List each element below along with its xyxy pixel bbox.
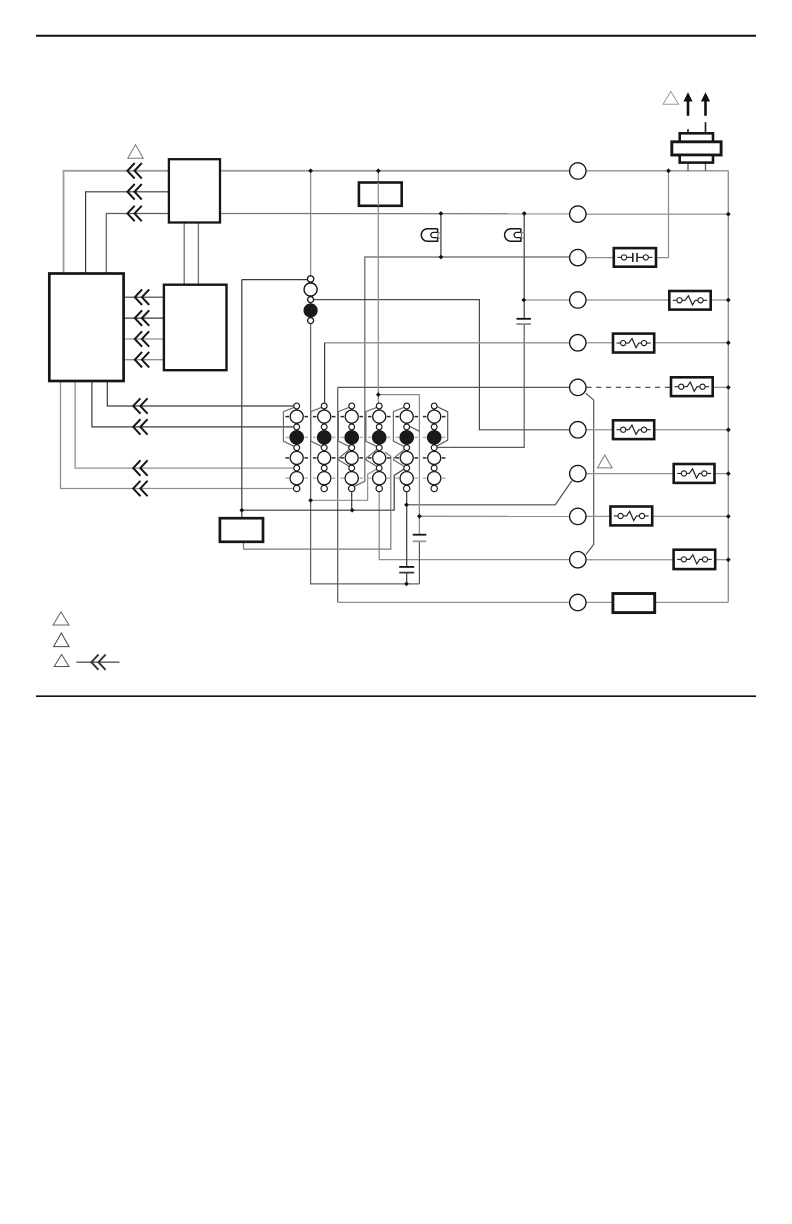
wire: col5 bottom drop through capacitor C-C xyxy=(406,492,408,567)
wire: gray net y500 chain to col4 lower contact xyxy=(311,469,377,500)
connector chevron K9 xyxy=(133,420,140,434)
wire: net row1 left pin 3 xyxy=(106,214,169,275)
switch column SW2 wiper bracket xyxy=(311,407,322,446)
connector circle C6 xyxy=(570,379,586,395)
wire: row6 net to switch bank and row11 xyxy=(338,386,570,388)
connector circle C3 xyxy=(570,249,586,265)
wire: row11 to C11 xyxy=(338,601,569,603)
switch column SW5 contacts xyxy=(404,403,410,409)
switch column SW5 wiper bracket xyxy=(393,407,404,446)
wire: row3 net xyxy=(353,257,569,487)
switch column SW2 contact dashes xyxy=(313,416,317,418)
wire: row10 net from switch col4 bottom xyxy=(379,492,569,560)
switch column SW5 lower wiper xyxy=(394,450,404,467)
wire: long vertical to label box L1 xyxy=(241,280,243,519)
triangle note marker mid right xyxy=(598,455,613,468)
wire: row11 C11 to relay box R1 xyxy=(586,601,613,603)
wire: row8 C8 to fuse F6 xyxy=(586,473,674,475)
wire: branch row1 down to junction chain J1 xyxy=(310,171,312,277)
connector circle C11 xyxy=(570,594,586,610)
lamp E2 xyxy=(505,229,521,242)
label box L1 xyxy=(220,518,263,542)
wire: row2 U1 to C2 xyxy=(220,213,570,215)
legend triangle 2 xyxy=(54,633,69,647)
connector circle C1 xyxy=(570,163,586,179)
wire: row2 C2 to bus xyxy=(586,213,728,215)
connector circle C5 xyxy=(570,335,586,351)
triangle note marker top right xyxy=(663,91,679,104)
switch column SW6 contact dashes xyxy=(423,416,427,418)
wire: chain J1 vertical through switch bank xyxy=(311,283,420,584)
wire: row4 C4 to fuse F2 xyxy=(586,299,669,301)
wire: U2-U3 row d xyxy=(124,359,164,361)
connector chevron K1 xyxy=(127,164,134,178)
wire: net row1 C1 to horn/battery legs xyxy=(586,170,728,172)
wire: fuse F1 riser to row1 xyxy=(656,171,669,258)
switch column SW4 contact dashes xyxy=(368,416,372,418)
wire: row4 net from chain J1 to C7 xyxy=(314,300,570,430)
wire: row8 diagonal net C8 to switch col5 drop xyxy=(407,481,572,505)
wire: row7 C7 to fuse F5 xyxy=(586,429,613,431)
connector chevron K3 xyxy=(127,207,134,221)
control unit U1 (top box) xyxy=(169,159,220,222)
arrow up 1 xyxy=(687,100,690,116)
wire: U2 bottom pin to switch column 1 (row S3) xyxy=(75,380,294,468)
connector circle C10 xyxy=(570,552,586,568)
wire: row4b capacitor branch to C4 xyxy=(524,299,570,301)
switch column SW4 lower wiper xyxy=(366,450,376,467)
wire: row9 C9 to fuse F7 xyxy=(586,515,610,517)
wire: net row1 main bus U1 to C1 xyxy=(220,170,570,172)
connector circle C9 xyxy=(570,508,586,524)
connector chevron K8 xyxy=(133,399,140,413)
horn component M1 legs xyxy=(687,162,689,171)
wire: row5 C5 to fuse F3 xyxy=(586,342,613,344)
switch column SW3 lower wiper xyxy=(339,450,349,467)
junction dots xyxy=(308,168,313,173)
connector chevron K11 xyxy=(133,482,140,496)
connector circle C2 xyxy=(570,206,586,222)
switch column SW2 contacts xyxy=(321,403,327,409)
wire: U2 bottom pin to switch column 1 top (row S1) xyxy=(107,380,293,406)
wire: row3 C3 to fuse F1 xyxy=(586,257,614,259)
legend chevron symbol xyxy=(76,661,119,663)
connector circle C4 xyxy=(570,292,586,308)
fuse F5 xyxy=(613,420,654,439)
junction chain J1 contacts xyxy=(307,276,313,282)
switch column SW1 wiper bracket xyxy=(283,407,294,446)
wire: U2-U3 row b xyxy=(124,317,164,319)
wire: net y394 branch to capacitor C-B drop xyxy=(378,395,419,535)
switch column SW6 wiper bracket xyxy=(437,407,448,446)
wire: fuse F5 to bus xyxy=(654,429,728,431)
connector chevron K4 xyxy=(135,290,142,304)
connector chevron K6 xyxy=(135,332,142,346)
wire: U2-U3 row a xyxy=(124,296,164,298)
lamp E1 xyxy=(421,229,437,242)
switch column SW5 contact dashes xyxy=(395,416,399,418)
capacitor C-B xyxy=(413,534,427,536)
page bottom rule xyxy=(36,695,756,697)
wire: U2 bottom pin to switch column 1 (row S2) xyxy=(92,380,294,427)
wire: fuse F3 to bus xyxy=(654,342,728,344)
wire: row5 net to switch col2 xyxy=(325,342,570,344)
horn component M1 stub right xyxy=(705,122,707,134)
page top rule xyxy=(36,35,756,37)
control unit U3 (mid box) xyxy=(164,285,227,371)
legend triangle 1 xyxy=(53,612,69,625)
fuse F4 xyxy=(671,377,713,396)
control unit U2 (large left box) xyxy=(49,274,123,382)
wire: fuse F8 to bus xyxy=(715,559,728,561)
capacitor C-C xyxy=(399,566,414,568)
wire: net row1 left pin 2 xyxy=(86,192,169,275)
switch column SW1 contacts xyxy=(294,403,300,409)
fuse F2 xyxy=(669,291,710,310)
fuse F8 xyxy=(674,550,716,569)
fuse F3 xyxy=(613,334,654,353)
wire: bus bottom to relay box R1 xyxy=(655,601,729,603)
wire: row1 branch visible through box E xyxy=(377,183,379,206)
relay box R1 (empty) xyxy=(613,594,655,613)
wire: selector arm C6 to C10 xyxy=(586,393,594,554)
wire: col5 wiper diagonal to drop xyxy=(410,426,420,431)
switch column SW3 wiper bracket xyxy=(338,407,349,446)
wire: junction chain J1 feed from U3 area xyxy=(242,279,308,281)
triangle note marker 1 xyxy=(128,145,144,159)
fuse F7 xyxy=(610,507,652,526)
wire: row6 dashed link C6 to fuse F4 xyxy=(586,386,671,388)
switch column SW3 contact dashes xyxy=(340,416,344,418)
connector circle C8 xyxy=(570,465,586,481)
wire: net row1 left, control unit U2 top pin 1 to U1 xyxy=(64,171,169,275)
wire: row10 C10 to fuse F8 xyxy=(586,559,674,561)
switch column SW3 contacts xyxy=(349,403,355,409)
box E (small top-middle box) xyxy=(359,183,402,206)
wire: U2-U3 row c xyxy=(124,338,164,340)
connector chevron K2 xyxy=(127,185,134,199)
arrow up 2 xyxy=(704,100,707,116)
switch column SW4 contacts xyxy=(376,403,382,409)
connector chevron K5 xyxy=(135,311,142,325)
wire: lamp E2 drop to capacitor C-A and switch col6 xyxy=(523,214,525,319)
wire: right vertical supply bus xyxy=(727,171,729,603)
wire: U1 to U3 vertical pair xyxy=(183,223,185,285)
wire: row9 net to capacitor drop xyxy=(419,515,569,517)
horn component M1 body xyxy=(680,133,713,142)
wire: lamp E1 drop xyxy=(440,214,442,258)
wire: fuse F2 to bus xyxy=(711,299,729,301)
wire: black net y510 to col5 contact xyxy=(242,469,404,510)
connector circle C7 xyxy=(570,422,586,438)
legend triangle 3 xyxy=(54,655,69,667)
wire: fuse F6 to bus xyxy=(715,473,729,475)
fuse F6 xyxy=(674,464,715,483)
connector chevron K10 xyxy=(133,461,140,475)
fuse F1 (capacitor type) xyxy=(614,248,656,267)
wire: branch row1 through box E to switch col4 top xyxy=(377,171,379,403)
connector chevron K7 xyxy=(135,353,142,367)
wire: U2 bottom pin to switch column 1 (row S4) xyxy=(61,380,294,489)
wire: fuse F7 to bus xyxy=(652,515,728,517)
switch column SW6 contacts xyxy=(431,403,437,409)
wire: label box L1 output to col4 wiper xyxy=(244,452,391,549)
wire: col3 bottom stub xyxy=(351,492,353,510)
switch column SW1 contact dashes xyxy=(285,416,289,418)
wire: fuse F4 to bus xyxy=(713,386,729,388)
switch column SW4 wiper bracket xyxy=(366,407,377,446)
horn component M1 stub left xyxy=(687,129,689,134)
capacitor C-A xyxy=(517,318,531,320)
